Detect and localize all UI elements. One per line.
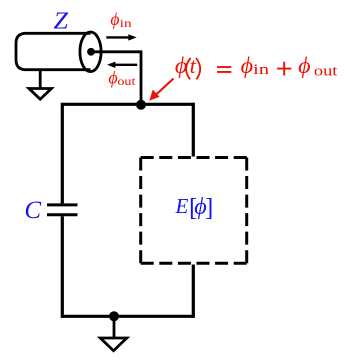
ground (under cylinder): [29, 70, 52, 100]
ground (bottom): [100, 316, 127, 350]
bottom node dot: [109, 311, 119, 321]
svg-text:out: out: [314, 64, 339, 80]
svg-text:ϕ: ϕ: [298, 53, 311, 78]
center conductor dot of Z: [87, 48, 95, 56]
svg-text:ϕ: ϕ: [108, 68, 117, 88]
phi_in arrow: [106, 34, 136, 40]
phi_out arrow: [107, 62, 137, 68]
right wire lower: [192, 265, 195, 318]
left wire lower: [61, 216, 64, 318]
svg-text:t: t: [190, 53, 197, 78]
svg-text:C: C: [24, 197, 41, 224]
svg-text:E: E: [175, 194, 189, 218]
svg-text:in: in: [120, 18, 132, 30]
left wire upper: [61, 103, 64, 204]
svg-text:out: out: [117, 76, 136, 88]
red pointer arrow to node: [149, 79, 173, 101]
red annotation: phi(t) = phi_in + phi_out: [175, 53, 339, 80]
node phi(t) junction dot: [136, 100, 146, 110]
svg-text:ϕ: ϕ: [175, 53, 188, 78]
right wire upper: [192, 103, 195, 157]
transmission line Z (coax cylinder body): [16, 32, 101, 72]
svg-text:ϕ: ϕ: [241, 53, 254, 78]
label phi_out: [108, 68, 136, 89]
top wire: [62, 103, 193, 106]
svg-text:ϕ: ϕ: [110, 9, 119, 29]
wire from Z to node: [91, 52, 141, 105]
svg-text:in: in: [253, 62, 269, 78]
svg-text:]: ]: [205, 195, 213, 222]
capacitor C plates: [47, 205, 78, 215]
bottom wire: [62, 315, 193, 318]
label phi_in: [110, 9, 132, 30]
svg-text:Z: Z: [54, 9, 69, 35]
dashed box E[phi]: [141, 158, 247, 264]
